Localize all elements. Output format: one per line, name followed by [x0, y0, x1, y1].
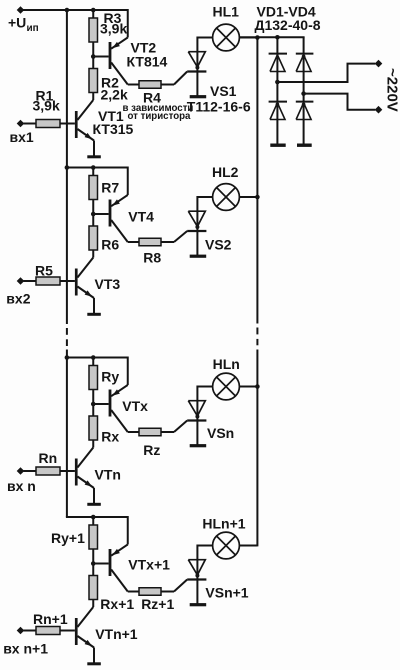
lamp HLn+1 — [213, 532, 240, 559]
label R3 — [104, 10, 122, 26]
resistor Rx+1 — [89, 576, 98, 600]
wire +U rail to R3 — [92, 10, 94, 18]
wire Ry to node — [92, 390, 94, 405]
label VT3 — [95, 276, 121, 292]
cathode bus bar col2 — [297, 144, 312, 147]
wire node to VTx base — [93, 403, 108, 405]
label VTn — [95, 467, 121, 483]
wire Rz to VSn gate — [161, 421, 187, 433]
svg-text:2,2k: 2,2k — [101, 87, 128, 103]
svg-text:HL1: HL1 — [213, 4, 240, 20]
wire вх n+1 to Rn+1 — [24, 630, 37, 632]
svg-text:+U: +U — [8, 15, 26, 31]
wire вх1 to R1 — [24, 123, 37, 125]
label VD1-VD4 — [257, 4, 316, 20]
wire chn rail to emitter — [93, 357, 128, 359]
svg-text:Rx+1: Rx+1 — [100, 596, 134, 612]
thyristor VS2 — [187, 196, 206, 256]
svg-text:Rx: Rx — [101, 428, 119, 444]
svg-text:VT4: VT4 — [128, 209, 154, 225]
svg-text:Т112-16-6: Т112-16-6 — [187, 99, 251, 115]
ground VT3 emitter — [87, 313, 101, 316]
wire R7 to node — [92, 200, 94, 215]
label VT2 — [131, 40, 157, 56]
svg-text:R5: R5 — [35, 263, 53, 279]
wire Rx+1 to VTn+1 collector — [92, 600, 94, 608]
wire +U rail to R7 — [92, 168, 94, 176]
wire +U supply rail — [21, 9, 128, 11]
wire R2 to VT1 collector — [92, 93, 94, 101]
node left rail chn — [65, 355, 70, 360]
svg-text:Rz: Rz — [143, 442, 160, 458]
svg-text:КТ814: КТ814 — [127, 54, 168, 70]
type КТ315 — [93, 121, 134, 137]
label R7 — [101, 180, 119, 196]
value R1 — [33, 98, 60, 114]
wire lamp to VS1 — [197, 37, 212, 39]
svg-text:3,9k: 3,9k — [33, 98, 60, 114]
svg-text:Ry+1: Ry+1 — [51, 530, 85, 546]
svg-text:VSn: VSn — [207, 425, 234, 441]
svg-text:R8: R8 — [143, 250, 161, 266]
wire HLn to rail — [239, 386, 257, 388]
label Ry — [101, 369, 119, 385]
wire left +U rail upper — [66, 10, 68, 324]
svg-text:VS1: VS1 — [210, 83, 237, 99]
node chn rail/Ry — [91, 355, 96, 360]
node bridge AC right — [301, 91, 306, 96]
note R4 line2 — [128, 111, 192, 122]
node R7/R6 — [91, 212, 96, 217]
node chn+1 rail/Ry+1 — [91, 515, 96, 520]
cathode bar VS2 — [190, 255, 207, 258]
label R4 — [143, 90, 161, 106]
wire left rail dash 1 — [66, 328, 68, 335]
label вх2 — [6, 291, 30, 307]
svg-text:вх1: вх1 — [10, 129, 34, 145]
cathode bar VSn — [190, 444, 207, 447]
resistor Ry — [89, 366, 98, 390]
diode VD2 — [296, 54, 314, 72]
label VTx — [122, 398, 148, 414]
svg-text:VTn+1: VTn+1 — [95, 626, 138, 642]
node R3/R2 — [91, 54, 96, 59]
value R2 — [101, 87, 128, 103]
node rail/R3 — [91, 8, 96, 13]
wire R3 to node — [92, 42, 94, 57]
lamp HL1 — [213, 24, 240, 51]
wire lamp rail lower — [256, 350, 258, 547]
terminal вх n — [17, 467, 25, 475]
wire вх n to Rn — [24, 470, 37, 472]
svg-text:~220V: ~220V — [384, 68, 400, 112]
node ch2 rail/R7 — [91, 165, 96, 170]
label VT4 — [128, 209, 154, 225]
diode VD1 — [269, 54, 287, 72]
label VTx+1 — [128, 556, 170, 572]
wire HLn+1 to rail — [239, 545, 257, 547]
svg-text:3,9k: 3,9k — [100, 21, 127, 37]
lamp HLn — [213, 373, 240, 400]
label вх n+1 — [3, 641, 48, 657]
wire +U rail to Ry — [92, 358, 94, 366]
wire R6 to VT3 collector — [92, 250, 94, 258]
node HL1 rail — [255, 35, 260, 40]
transistor VTx — [109, 357, 139, 433]
label VTn+1 — [95, 626, 138, 642]
wire lamp rail upper — [256, 37, 258, 323]
diode VD4 — [296, 102, 314, 120]
thyristor VSn+1 — [187, 545, 206, 605]
wire bridge col2 — [303, 37, 305, 144]
svg-text:VS2: VS2 — [205, 237, 232, 253]
wire AC right to 220V — [304, 94, 376, 110]
svg-text:R7: R7 — [101, 180, 119, 196]
wire node to Rx+1 — [92, 564, 94, 576]
type Т112-16-6 — [187, 99, 251, 115]
resistor R1 — [36, 120, 60, 128]
label R5 — [35, 263, 53, 279]
resistor Ry+1 — [89, 525, 98, 549]
transistor VT1 — [60, 100, 94, 156]
wire lamp to VS2 — [197, 196, 212, 198]
transistor VTx+1 — [109, 516, 139, 592]
svg-text:VTx+1: VTx+1 — [128, 556, 170, 572]
wire R8 to VS2 gate — [161, 231, 187, 242]
value R3 — [100, 21, 127, 37]
transistor VTn+1 — [60, 607, 94, 663]
terminal вх1 — [17, 120, 25, 128]
node Ry/Rx — [91, 402, 96, 407]
node HLn rail — [255, 384, 260, 389]
cathode bus bar col1 — [270, 144, 285, 147]
wire node to R6 — [92, 214, 94, 226]
lamp HL2 — [213, 184, 240, 211]
wire Rz+1 to VSn+1 gate — [161, 580, 187, 592]
terminal +U — [17, 6, 25, 14]
label VSn+1 — [205, 585, 248, 601]
label HLn+1 — [202, 516, 245, 532]
wire chn rail — [67, 357, 93, 359]
transistor VT2 — [109, 9, 139, 85]
label HLn — [213, 356, 240, 372]
node rail/left — [65, 8, 70, 13]
node bridge top col1 — [275, 35, 280, 40]
svg-text:R6: R6 — [101, 237, 119, 253]
thyristor VS1 — [187, 37, 206, 97]
node left rail ch2 — [65, 165, 70, 170]
svg-text:HL2: HL2 — [212, 164, 239, 180]
svg-text:ип: ип — [27, 23, 39, 34]
svg-text:вх n: вх n — [7, 478, 36, 494]
svg-text:HLn+1: HLn+1 — [202, 516, 245, 532]
label Rz — [143, 442, 160, 458]
label D132-40-8 — [255, 17, 321, 33]
label VSn — [207, 425, 234, 441]
svg-text:Ry: Ry — [101, 369, 119, 385]
node HL2 rail — [255, 195, 260, 200]
wire HL2 to rail — [239, 196, 257, 198]
wire HL1 to rail — [239, 37, 257, 39]
wire chn+1 rail — [66, 516, 128, 518]
resistor Rz+1 — [139, 588, 161, 596]
wire Rx to VTn collector — [92, 440, 94, 448]
wire +U rail to Ry+1 — [92, 517, 94, 525]
wire node to VT4 base — [93, 213, 108, 215]
transistor VT3 — [60, 258, 94, 314]
terminal 220V lower — [375, 106, 383, 114]
ground VT1 emitter — [87, 155, 101, 158]
svg-text:Rn+1: Rn+1 — [33, 611, 68, 627]
resistor R3 — [89, 18, 98, 42]
label VS2 — [205, 237, 232, 253]
wire node to VT2 base — [93, 56, 108, 58]
svg-text:от тиристора: от тиристора — [128, 111, 192, 122]
wire AC left to 220V — [277, 64, 375, 82]
wire ch2 rail to emitter — [93, 167, 128, 169]
svg-text:КТ315: КТ315 — [93, 121, 134, 137]
resistor Rn — [36, 467, 60, 475]
label вх1 — [10, 129, 34, 145]
svg-text:вх n+1: вх n+1 — [3, 641, 48, 657]
label Rn — [39, 450, 58, 466]
wire lamp to VSn+1 — [197, 545, 212, 547]
node bridge AC left — [275, 80, 280, 85]
wire node to Rx — [92, 404, 94, 416]
label вх n — [7, 478, 36, 494]
wire node to VTx+1 base — [93, 563, 108, 565]
transistor VTn — [60, 448, 94, 504]
wire left rail dash 2 — [66, 339, 68, 346]
wire lamp to VSn — [197, 386, 212, 388]
svg-text:VSn+1: VSn+1 — [205, 585, 248, 601]
svg-text:Д132-40-8: Д132-40-8 — [255, 17, 321, 33]
wire bridge top — [239, 36, 304, 38]
label R8 — [143, 250, 161, 266]
wire ch2 rail — [67, 167, 93, 169]
label Ry+1 — [51, 530, 85, 546]
svg-text:VTx: VTx — [122, 398, 148, 414]
wire lamp rail dash 1 — [256, 328, 258, 335]
label VS1 — [210, 83, 237, 99]
wire R4 to VS1 gate — [161, 72, 187, 85]
diode VD3 — [269, 102, 287, 120]
transistor VT4 — [109, 167, 139, 243]
svg-text:HLn: HLn — [213, 356, 240, 372]
label VT1 — [98, 108, 124, 124]
svg-text:Rn: Rn — [39, 450, 58, 466]
resistor R5 — [36, 277, 60, 285]
note R4 line1 — [123, 103, 194, 114]
cathode bar VS1 — [190, 95, 207, 98]
resistor R6 — [89, 226, 98, 250]
svg-text:VT3: VT3 — [95, 276, 121, 292]
svg-text:VTn: VTn — [95, 467, 121, 483]
label 220V — [384, 68, 400, 112]
resistor R7 — [89, 176, 98, 200]
label HL1 — [213, 4, 240, 20]
ground VTn+1 emitter — [87, 662, 101, 665]
label Rx — [101, 428, 119, 444]
label Rx+1 — [100, 596, 134, 612]
svg-text:вх2: вх2 — [6, 291, 30, 307]
label R1 — [36, 88, 54, 104]
terminal вх2 — [17, 277, 25, 285]
thyristor VSn — [187, 386, 206, 446]
resistor Rn+1 — [36, 627, 60, 635]
wire left +U rail lower — [66, 350, 68, 518]
resistor R4 — [139, 81, 161, 89]
terminal вх n+1 — [17, 627, 25, 635]
cathode bar VSn+1 — [190, 603, 207, 606]
svg-text:Rz+1: Rz+1 — [141, 596, 174, 612]
resistor R8 — [139, 238, 161, 246]
label Rn+1 — [33, 611, 68, 627]
wire bridge col1 — [276, 37, 278, 144]
wire Ry+1 to node — [92, 549, 94, 564]
label +Uip — [8, 15, 39, 35]
resistor Rx — [89, 416, 98, 440]
node Ry+1/Rx+1 — [91, 561, 96, 566]
type КТ814 — [127, 54, 168, 70]
label HL2 — [212, 164, 239, 180]
resistor Rz — [139, 428, 161, 436]
wire вх2 to R5 — [24, 280, 37, 282]
wire node to R2 — [92, 57, 94, 69]
label R6 — [101, 237, 119, 253]
terminal 220V upper — [375, 60, 383, 68]
wire lamp rail dash 2 — [256, 339, 258, 345]
ground VTn emitter — [87, 503, 101, 506]
label R2 — [101, 75, 119, 91]
label Rz+1 — [141, 596, 174, 612]
resistor R2 — [89, 69, 98, 93]
